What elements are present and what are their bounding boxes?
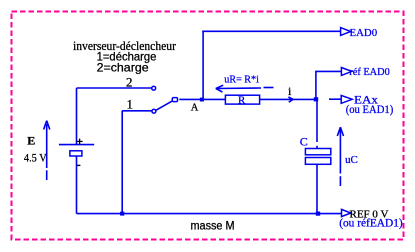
svg-text:2: 2 [126,75,133,90]
svg-text:1: 1 [127,96,134,111]
svg-text:E: E [27,134,35,148]
wire EAD0 branch (horizontal) [202,30,340,32]
svg-text:R: R [238,94,246,106]
wire battery positive to switch contact 2 (vertical) [76,88,78,144]
wire node B down to capacitor C [316,101,318,149]
wire switch contact 2 (horizontal) [77,87,152,89]
wire réf EAD0 branch (horizontal) [315,70,341,72]
wire node B up to réf EAD0 branch (vertical) [315,71,317,99]
current arrow i on wire [288,97,293,102]
wire switch contact 1 down to ground rail (vertical) [121,111,123,214]
svg-text:uR= R*i: uR= R*i [224,73,259,85]
junction dot capacitor / ground rail [316,212,320,216]
switch contact 2 terminal circle [152,86,156,90]
ground rail masse M (horizontal) [77,213,342,215]
svg-text:4.5 V: 4.5 V [24,151,47,165]
junction dot contact-1 wire / ground rail [120,212,124,216]
svg-text:(ou réfEAD1): (ou réfEAD1) [339,217,403,229]
switch S1 lever blade [156,101,173,111]
wire switch contact 1 (horizontal) [122,110,152,112]
wire node A up to EAD0 branch (vertical) [202,31,204,98]
wire capacitor C to ground rail [316,164,318,213]
terminal triangle réf EAD0 [341,68,351,76]
capacitor C top plate [305,149,330,155]
svg-text:EAD0: EAD0 [350,27,378,39]
terminal triangle EAD0 [341,28,351,36]
wire battery negative down to ground rail [76,156,78,214]
node B junction dot (resistor/capacitor/outputs) [314,97,318,101]
svg-text:(ou EAD1): (ou EAD1) [346,102,394,116]
battery polarity label + [77,139,83,145]
svg-text:A: A [191,102,199,113]
node A junction dot [200,98,204,102]
battery polarity label - [76,164,80,166]
svg-text:masse M: masse M [191,220,235,232]
svg-text:réf EAD0: réf EAD0 [349,66,390,78]
resistor R body [225,95,259,104]
wire node A to resistor R [203,98,225,100]
battery E positive plate [59,144,94,146]
battery E negative plate [70,151,82,156]
battery voltage arrow E (points up) [44,121,50,180]
terminal triangle EAx [341,95,352,103]
capacitor C bottom plate [305,158,330,165]
voltage arrow uR (points left) [216,85,274,92]
wire resistor R to node B [260,98,314,100]
switch contact 1 terminal circle [152,109,156,113]
wire switch pole to node A [179,98,201,100]
svg-text:C: C [300,134,308,148]
terminal triangle REF 0 V [342,209,351,216]
wire stub node B to EAx triangle [329,98,341,100]
svg-text:uC: uC [345,154,358,166]
voltage arrow uC (points up) [337,127,343,186]
switch pole terminal circle [172,98,177,102]
svg-text:2=charge: 2=charge [97,61,149,75]
